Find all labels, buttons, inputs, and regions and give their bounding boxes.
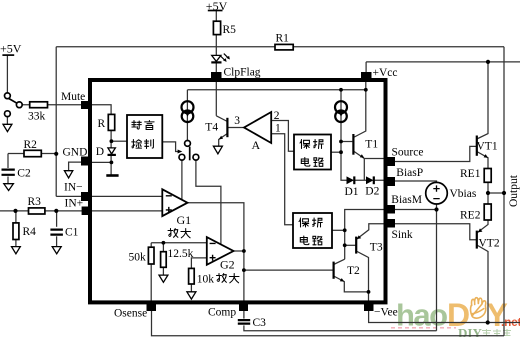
svg-text:+Vcc: +Vcc (373, 67, 398, 79)
node T3 base (343, 243, 347, 247)
pin Mute (81, 101, 91, 109)
label dian (electric) of protection box 2 (300, 236, 309, 245)
wire: IN+ input line (0, 210, 84, 212)
wire: A input 1 to protection box 2 (271, 134, 293, 225)
label fang (amplify-1) of G1 (168, 229, 178, 238)
wire: C2 branch (7, 154, 9, 184)
pin IN+ (82, 207, 92, 216)
pin +Vcc (361, 72, 372, 82)
watermark CJK tagline glyphs (482, 329, 511, 337)
resistor 50k (148, 247, 154, 264)
wire: ClpFlag pin down to T4 collector (215, 79, 217, 116)
wire: GND pin internal (91, 161, 112, 163)
wire: R4 branch (15, 211, 17, 247)
node Output (502, 191, 506, 195)
svg-text:Mute: Mute (61, 91, 85, 103)
resistor R1 (275, 44, 293, 50)
svg-text:T3: T3 (370, 242, 383, 254)
resistor R (internal) (108, 114, 114, 130)
node +Vcc/T1 collector (364, 88, 368, 92)
svg-text:R4: R4 (23, 226, 37, 238)
resistor RE1 (484, 169, 491, 183)
node protection1 output (339, 150, 343, 154)
watermark hand icon (471, 298, 486, 318)
wire: +5V stem to switch (6, 55, 8, 93)
wire: VT1 emitter to RE1 (477, 152, 488, 169)
wire: A input 2 to protection box 1 (271, 121, 294, 152)
label lu (circuit) of protection box 2 (313, 236, 322, 245)
ground (at GND pin) (64, 171, 72, 178)
svg-text:G2: G2 (220, 257, 235, 271)
wire: 10k branch to G2 plus input (191, 258, 206, 292)
node T2 base (242, 268, 246, 272)
wire: switch to 33k to Mute pin (22, 104, 83, 106)
ground (below R4) (12, 247, 21, 254)
node T2/T3 to -Vee (367, 290, 371, 294)
pin Comp (239, 302, 248, 311)
wire: CS1 vertical (186, 90, 188, 141)
wire: T1 base (341, 141, 352, 143)
mute control box (127, 115, 162, 158)
transistor VT2 (477, 228, 483, 248)
node BiasM/Vbias (434, 207, 438, 211)
wire: C3 bottom to Vbias minus line (244, 311, 437, 331)
label bao (protect) of protection box 1 (300, 140, 310, 149)
wire: R2 GND net (8, 153, 56, 155)
svg-text:IN+: IN+ (65, 197, 84, 209)
op-amp IC block (LM4702) outline (90, 80, 386, 302)
svg-text:VT1: VT1 (477, 141, 498, 153)
svg-text:R2: R2 (24, 139, 38, 151)
ground (below T4) (213, 146, 222, 154)
pin -Vee (364, 302, 374, 311)
wire: protection box2 output (332, 229, 345, 231)
wire: Sink pin to VT2 base (395, 224, 477, 240)
wire: BiasP pin to Vbias plus (395, 181, 437, 183)
ground (below switch) (3, 124, 12, 131)
resistor R3 (29, 208, 45, 214)
svg-text:T2: T2 (347, 265, 360, 277)
wire: IN+ to G1 non-inverting input (91, 210, 162, 212)
pin BiasP (385, 177, 395, 186)
comparator A (244, 112, 271, 143)
svg-text:3: 3 (234, 115, 240, 127)
wire: mute switch left contact to G1 output edge (181, 160, 183, 199)
svg-text:50k: 50k (129, 252, 147, 264)
wire: +5V to R5 to LED to ClpFlag pin (215, 11, 217, 76)
current source CS2 (335, 101, 347, 122)
wire: 50k branch to Osense pin (150, 243, 152, 302)
ground (below 10k) (187, 292, 196, 299)
svg-text:C2: C2 (17, 168, 31, 180)
pin BiasM (385, 205, 395, 214)
pin Sink (385, 219, 395, 228)
resistor RE2 (484, 204, 491, 220)
wire: R1 horizontal net y=46.8 (56, 46, 504, 48)
pin IN- (81, 192, 91, 201)
wire: CS2 vertical to D1 (341, 90, 347, 181)
svg-text:T4: T4 (205, 122, 218, 134)
label da (big-1) of G1 (181, 229, 191, 238)
wire: node to mute-control box (112, 140, 127, 142)
transistor VT1 (477, 136, 488, 158)
svg-text:VT2: VT2 (479, 237, 500, 249)
svg-text:2: 2 (274, 110, 280, 122)
wire: mute control output elbow (162, 142, 178, 152)
power +5V (top middle) (208, 10, 223, 12)
wire: protection box1 output (331, 151, 341, 153)
capacitor C1 (50, 227, 65, 237)
wire: GND pin to ground symbol (69, 162, 83, 171)
svg-text:G1: G1 (177, 213, 192, 227)
svg-text:Vbias: Vbias (450, 188, 477, 200)
wire: RE1 to output node to RE2 (487, 182, 489, 204)
wire: IN- to G1 inverting input (91, 195, 162, 197)
switch (mute, internal) (179, 141, 199, 161)
svg-text:R1: R1 (276, 33, 290, 45)
svg-text:+5V: +5V (206, 0, 228, 13)
power +5V (left) (2, 54, 14, 56)
pin GND (81, 157, 91, 166)
wire: G2 output to junction (234, 250, 244, 252)
wire: IN- to GND node (56, 195, 82, 197)
wire: Mute pin to R (91, 105, 111, 115)
wire: D1-D2 link and D2 to BiasP pin (354, 179, 385, 181)
resistor 33k (30, 102, 48, 108)
wire: G1 output to Comp vertical (188, 203, 244, 302)
wire: T2 collector diagonal (334, 259, 345, 264)
svg-text:Osense: Osense (114, 307, 147, 319)
svg-text:D2: D2 (365, 185, 379, 197)
label bao (protect) of protection box 2 (299, 218, 309, 227)
node D/GND pin (110, 161, 114, 165)
diode D (internal) (108, 148, 116, 155)
wire: 12.5k branch (162, 243, 164, 275)
wire: T2 emitter to -Vee junction (334, 276, 369, 292)
transistor T1 (353, 134, 364, 158)
resistor 10k (189, 268, 195, 284)
svg-text:T1: T1 (365, 138, 378, 150)
ground (below 12.5k) (159, 275, 168, 282)
diode D1 (347, 176, 355, 184)
wire: VT1 collector to +Vcc rail (477, 62, 488, 139)
svg-text:R3: R3 (28, 196, 42, 208)
label hu (guard) of protection box 2 (313, 218, 323, 227)
svg-text:−Vee: −Vee (374, 306, 398, 318)
wire: +Vcc pin rail to right edge (366, 62, 520, 72)
diode D2 (366, 176, 374, 184)
label da (big-2) of G2 (229, 274, 239, 283)
label dian (electric) of protection box 1 (301, 158, 310, 167)
label fang (amplify-2) of G2 (217, 274, 227, 283)
label kong (control) of mute control (132, 140, 142, 149)
svg-text:D1: D1 (345, 186, 359, 198)
wire: T2 base line (244, 269, 334, 271)
svg-text:33k: 33k (28, 111, 46, 123)
svg-text:C3: C3 (253, 317, 267, 329)
svg-text:Comp: Comp (208, 306, 236, 318)
node VT2/-Vee (486, 320, 490, 324)
wire: T1 collector to +Vcc vertical (353, 82, 365, 138)
node +Vcc/VT1 (486, 60, 490, 64)
svg-text:10k: 10k (197, 274, 215, 286)
ground bar (internal, below D) (106, 174, 118, 177)
wire: mute switch right contact to G2 edge (196, 160, 221, 244)
node T1 base (339, 140, 343, 144)
wire: internal top rail y=89.8 (187, 89, 365, 91)
node R/D (110, 139, 114, 143)
node protection2 output (343, 228, 347, 232)
wire: -Vee pin rail to right edge (369, 311, 520, 323)
node G2 output (242, 249, 246, 253)
LED ClpFlag diode (211, 54, 230, 63)
resistor R2 (24, 150, 41, 156)
wire: feedback 50k node to G2 inverting input (151, 242, 207, 244)
wire: RE2 to VT2 emitter (477, 220, 488, 233)
node R3/R4 (13, 209, 17, 213)
label yin (sound) of mute control (145, 121, 154, 130)
wire: switch lower contact to ground (6, 117, 8, 125)
pin Source (385, 157, 395, 166)
svg-text:BiasP: BiasP (396, 167, 423, 179)
svg-text:R5: R5 (223, 24, 237, 36)
svg-text:RE1: RE1 (460, 168, 481, 180)
arrow from mute-control to switch (178, 150, 183, 154)
pin Osense (147, 302, 157, 311)
protection circuit box 1 (294, 135, 331, 170)
watermark dashed underline (391, 327, 456, 329)
svg-text:BiasM: BiasM (391, 194, 422, 206)
node CS2 top (339, 88, 343, 92)
label zhi (regulate) of mute control (145, 140, 154, 149)
svg-text:D: D (96, 146, 104, 158)
svg-text:Sink: Sink (392, 229, 413, 241)
resistor R5 (213, 21, 220, 34)
svg-text:IN−: IN− (64, 181, 83, 193)
wire: T1 emitter to Source and diode junction (353, 151, 385, 159)
node 12.5k top (162, 241, 166, 245)
node RE1/RE2 (486, 191, 490, 195)
svg-text:Output: Output (508, 174, 520, 207)
current source CS1 (182, 101, 194, 122)
wire: Sink internal to T3 emitter (356, 224, 385, 240)
transistor T4 (219, 118, 228, 140)
svg-text:+5V: +5V (0, 42, 22, 56)
wire: emitter node down to D1-D2 junction (363, 159, 365, 181)
switch SW mute (5, 93, 11, 99)
wire: R to D to GND pin node (110, 130, 112, 174)
svg-text:C1: C1 (65, 227, 79, 239)
wire: T3 base (345, 244, 357, 246)
wire: BiasM internal to T3/T2 column (345, 210, 385, 260)
label lu (circuit) of protection box 1 (314, 158, 323, 167)
wire: T4 emitter diagonal to ground (219, 134, 228, 147)
capacitor C2 (0, 168, 16, 177)
protection circuit box 2 (293, 213, 332, 248)
label jing (static) of mute control (132, 121, 141, 130)
svg-text:1: 1 (275, 122, 281, 134)
resistor R4 (13, 223, 19, 240)
wire: BiasM pin to Vbias minus and down (395, 204, 437, 331)
wire: Output rail x=504 (503, 47, 505, 336)
wire: C1 branch (56, 211, 58, 247)
capacitor C3 (237, 319, 252, 326)
transistor T3 (356, 235, 361, 253)
wire: T3 collector down (356, 251, 368, 302)
transistor T2 (334, 262, 345, 282)
wire: VT2 collector to -Vee rail (477, 245, 488, 323)
node R3/C1 (54, 209, 58, 213)
pin ClpFlag (211, 72, 222, 82)
wire: Source pin to VT1 base (395, 146, 477, 161)
node GND/R2 (54, 152, 58, 156)
amplifier G1 (162, 189, 187, 216)
svg-text:hao: hao (396, 298, 447, 333)
ground (below C2) (4, 184, 14, 191)
amplifier G2 (207, 237, 234, 265)
ground (below C1) (52, 247, 61, 254)
svg-text:R: R (98, 118, 106, 130)
svg-text:ClpFlag: ClpFlag (224, 66, 261, 78)
label hu (guard) of protection box 1 (314, 140, 324, 149)
resistor 12.5k (161, 252, 167, 268)
wire: output node to Output rail (488, 192, 504, 194)
svg-text:Source: Source (392, 147, 424, 159)
wire: T4 base to comparator A (227, 127, 244, 129)
Vbias source (426, 182, 448, 204)
wire: feedback net R1 line, left vertical x=56 (55, 47, 57, 197)
svg-text:A: A (252, 138, 261, 152)
wire: Osense bottom line y=335.7 (152, 311, 505, 336)
svg-text:12.5k: 12.5k (168, 248, 194, 260)
wire: T4 collector diagonal (216, 116, 227, 122)
svg-text:RE2: RE2 (460, 210, 481, 222)
svg-text:GND: GND (63, 147, 88, 159)
